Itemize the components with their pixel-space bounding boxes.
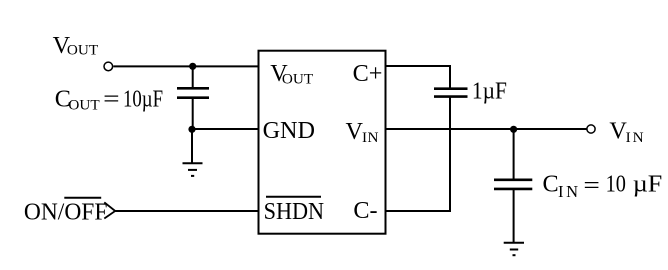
svg-text:C: C: [543, 170, 559, 197]
svg-text:GND: GND: [263, 117, 315, 144]
svg-text:IN: IN: [362, 129, 379, 146]
svg-text:1µF: 1µF: [472, 77, 507, 104]
svg-text:=: =: [103, 86, 120, 113]
svg-text:=: =: [583, 172, 600, 199]
svg-text:ON/OFF: ON/OFF: [24, 199, 108, 226]
svg-text:C+: C+: [353, 60, 383, 87]
svg-text:OUT: OUT: [67, 41, 99, 58]
svg-text:OUT: OUT: [68, 97, 100, 114]
svg-text:10: 10: [606, 170, 626, 197]
svg-text:µF: µF: [633, 170, 663, 197]
svg-text:OUT: OUT: [282, 70, 314, 87]
svg-text:10µF: 10µF: [123, 86, 163, 113]
svg-text:IN: IN: [558, 182, 578, 201]
svg-text:V: V: [346, 118, 364, 145]
svg-text:IN: IN: [626, 129, 644, 146]
svg-text:SHDN: SHDN: [264, 198, 325, 225]
svg-text:C-: C-: [353, 197, 377, 224]
